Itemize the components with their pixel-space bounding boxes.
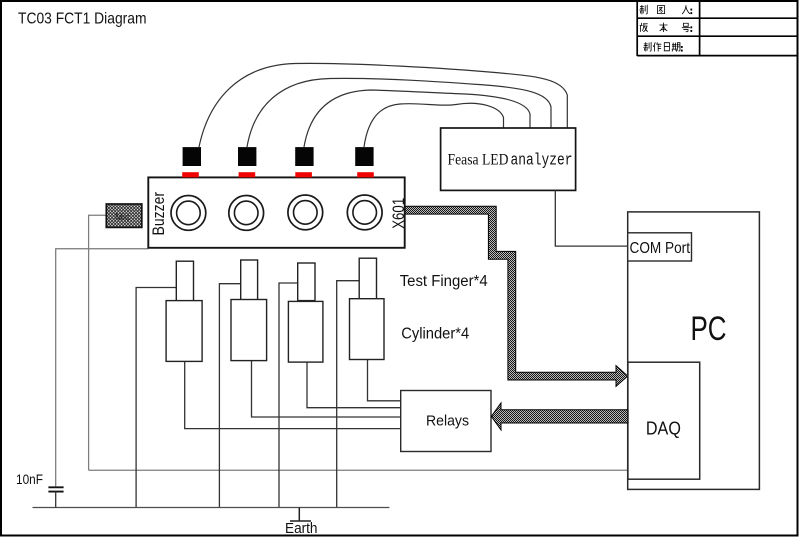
earth bus <box>33 507 390 509</box>
svg-text:PC: PC <box>691 310 727 348</box>
LED sensor plug 3 <box>295 147 313 166</box>
LED sensor plug 2 <box>238 147 256 166</box>
table row 1 label 制图人: <box>640 5 690 14</box>
svg-text:Buzzer: Buzzer <box>150 192 168 236</box>
wire: cylinder 4 to relays <box>368 360 401 401</box>
svg-text:DAQ: DAQ <box>646 418 681 439</box>
LED sensor plug 1 <box>183 147 201 166</box>
LED pad 4 (red) <box>357 172 374 177</box>
microphone Mic (hatched box) <box>106 204 142 227</box>
buzzer port 2 (double circle) <box>229 196 264 231</box>
Relays box <box>401 391 491 452</box>
wire: LED analyzer harness 4 <box>364 103 504 147</box>
svg-text:Earth: Earth <box>285 521 318 537</box>
hatched bus: X601 to PC (with arrowhead) <box>405 206 628 386</box>
svg-text:COM Port: COM Port <box>630 240 691 257</box>
svg-text:10nF: 10nF <box>16 471 43 487</box>
wire: test finger 4 to earth bus <box>337 281 360 508</box>
wire: mic to gray bus <box>89 215 107 470</box>
wire: LED analyzer harness 3 <box>304 90 530 147</box>
wire: LED analyzer harness 2 <box>247 78 551 147</box>
title block table <box>637 2 798 57</box>
wire: test finger 2 to earth bus <box>219 284 240 508</box>
PC box <box>628 212 760 490</box>
capacitor C1 10nF <box>48 487 63 491</box>
wire: cylinder 3 to relays <box>307 362 401 408</box>
svg-text:Test Finger*4: Test Finger*4 <box>400 273 488 290</box>
test finger 4 <box>359 258 376 299</box>
DAQ box <box>628 362 700 479</box>
svg-text:Relays: Relays <box>426 413 469 430</box>
buzzer port 3 (double circle) <box>288 195 323 230</box>
buzzer port 1 (double circle) <box>171 196 206 231</box>
cylinder 2 <box>231 300 267 361</box>
cylinder 1 <box>166 301 202 362</box>
svg-text:Mic: Mic <box>115 212 130 223</box>
ground symbol Earth <box>290 508 311 522</box>
wire: LED analyzer harness 1 <box>199 63 567 147</box>
wire: test finger 1 to earth bus <box>136 288 176 508</box>
test finger 3 <box>298 263 315 301</box>
test finger 1 <box>176 261 193 301</box>
svg-text:Cylinder*4: Cylinder*4 <box>401 325 469 342</box>
wire: cylinder 2 to relays <box>252 361 401 417</box>
buzzer bar X601 <box>148 177 404 247</box>
Feasa LED analyzer box <box>441 128 576 190</box>
COM Port box <box>628 233 692 261</box>
hatched arrow: DAQ to Relays <box>491 403 628 430</box>
cylinder 3 <box>288 301 323 362</box>
LED sensor plug 4 <box>355 147 373 166</box>
svg-text:TC03 FCT1 Diagram: TC03 FCT1 Diagram <box>18 11 147 28</box>
buzzer port 4 (double circle) <box>347 195 382 230</box>
wire: cylinder 1 to relays <box>185 361 401 428</box>
wire: analyzer to COM port <box>555 190 627 246</box>
LED pad 1 (red) <box>182 172 199 177</box>
test finger 2 <box>241 260 258 300</box>
svg-text:X601: X601 <box>389 198 408 229</box>
table row 3 label 制作日期: <box>644 42 680 51</box>
wire: gray signal line to DAQ <box>89 469 628 471</box>
wire: test finger 3 to earth bus <box>279 283 298 508</box>
cylinder 4 <box>350 299 385 360</box>
wire: buzzer bar to 10nF capacitor <box>56 249 149 486</box>
LED pad 2 (red) <box>239 172 256 177</box>
LED pad 3 (red) <box>295 172 312 177</box>
svg-text:Feasa LEDanalyzer: Feasa LEDanalyzer <box>448 151 573 170</box>
table row 2 label 版本号: <box>640 23 690 32</box>
